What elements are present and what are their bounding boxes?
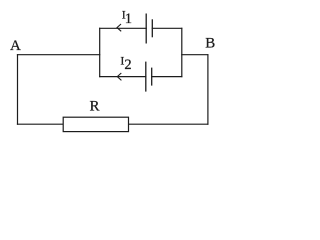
svg-text:I1: I1	[122, 8, 132, 27]
svg-text:R: R	[90, 99, 100, 115]
current arrow I1 (points left)	[117, 24, 121, 31]
battery cell top branch: short plate	[151, 19, 153, 37]
wire: right junction vertical	[181, 28, 183, 76]
svg-text:A: A	[10, 38, 21, 54]
wire: right junction to node B corner	[182, 54, 208, 56]
wire: left outer vertical	[17, 55, 19, 125]
svg-text:I2: I2	[120, 53, 131, 73]
battery cell bottom branch: long plate	[145, 62, 147, 92]
wire: left junction vertical	[99, 28, 101, 76]
svg-text:B: B	[205, 36, 215, 52]
battery cell bottom branch: short plate	[151, 68, 153, 86]
wire: node A to left junction	[18, 54, 100, 56]
wire: bottom left segment to resistor	[18, 123, 64, 125]
wire: right outer vertical	[207, 55, 209, 125]
resistor R body	[63, 117, 128, 131]
wire: bottom branch left of cell	[100, 76, 146, 78]
wire: top branch right of cell	[152, 27, 182, 29]
wire: bottom branch right of cell	[152, 76, 182, 78]
wire: bottom right segment from resistor	[128, 123, 208, 125]
current arrow I2 (points left)	[117, 73, 121, 80]
battery cell top branch: long plate	[145, 14, 147, 44]
wire: top branch left of cell	[100, 27, 147, 29]
